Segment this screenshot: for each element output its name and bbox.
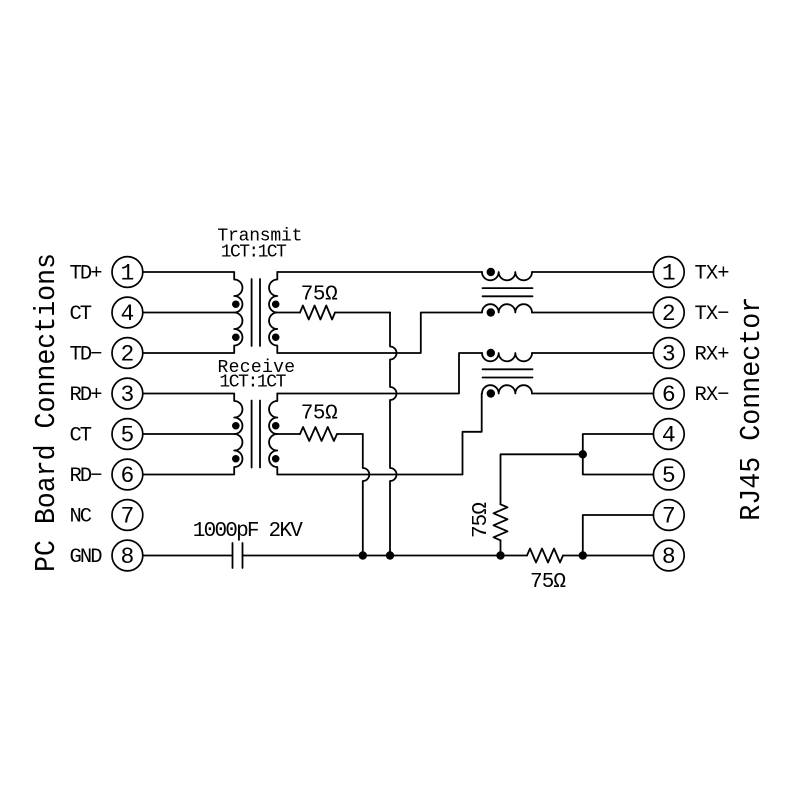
svg-text:PC Board Connections: PC Board Connections xyxy=(30,253,63,572)
svg-text:RX−: RX− xyxy=(695,384,730,407)
svg-text:5: 5 xyxy=(120,422,134,448)
svg-text:CT: CT xyxy=(70,303,93,326)
svg-text:75Ω: 75Ω xyxy=(301,402,338,425)
svg-text:3: 3 xyxy=(120,382,134,408)
svg-text:6: 6 xyxy=(662,382,676,408)
svg-text:7: 7 xyxy=(662,503,676,529)
svg-text:RX+: RX+ xyxy=(695,344,730,367)
svg-text:75Ω: 75Ω xyxy=(530,571,566,594)
svg-text:3: 3 xyxy=(662,341,676,367)
svg-text:TD−: TD− xyxy=(70,344,103,367)
svg-text:2: 2 xyxy=(120,341,134,367)
svg-text:1CT:1CT: 1CT:1CT xyxy=(221,242,287,262)
svg-text:1: 1 xyxy=(662,260,676,286)
svg-text:1000pF 2KV: 1000pF 2KV xyxy=(193,520,303,543)
svg-text:4: 4 xyxy=(662,422,676,448)
svg-text:6: 6 xyxy=(120,463,134,489)
svg-text:GND: GND xyxy=(70,546,103,569)
svg-text:8: 8 xyxy=(662,544,676,570)
svg-text:RD−: RD− xyxy=(70,465,103,488)
svg-text:NC: NC xyxy=(70,506,93,529)
svg-text:5: 5 xyxy=(662,463,676,489)
svg-text:TX+: TX+ xyxy=(695,263,730,286)
svg-text:4: 4 xyxy=(120,301,134,327)
svg-text:RD+: RD+ xyxy=(70,384,103,407)
svg-text:7: 7 xyxy=(120,503,134,529)
svg-text:8: 8 xyxy=(120,544,134,570)
svg-text:TX−: TX− xyxy=(695,303,730,326)
svg-text:1: 1 xyxy=(120,260,134,286)
svg-text:75Ω: 75Ω xyxy=(301,283,338,306)
svg-text:75Ω: 75Ω xyxy=(470,502,493,538)
svg-text:2: 2 xyxy=(662,301,676,327)
svg-text:TD+: TD+ xyxy=(70,263,103,286)
svg-text:RJ45 Connector: RJ45 Connector xyxy=(735,297,768,521)
svg-text:CT: CT xyxy=(70,425,93,448)
svg-text:1CT:1CT: 1CT:1CT xyxy=(219,373,286,393)
